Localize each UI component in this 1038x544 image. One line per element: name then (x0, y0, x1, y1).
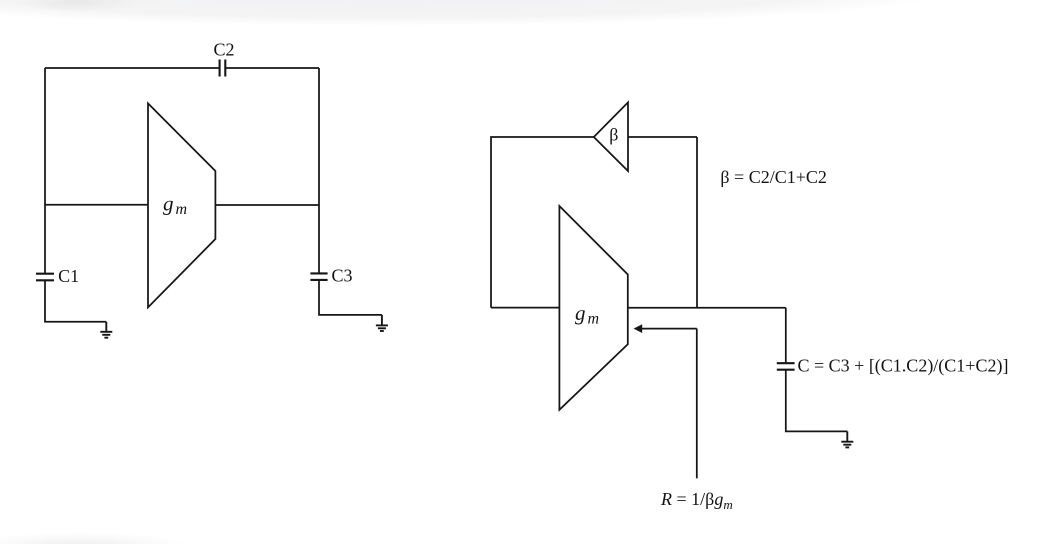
svg-text:C3: C3 (332, 266, 353, 286)
wire: arrow horizontal into gm output (641, 328, 697, 330)
svg-text:R = 1/βgm: R = 1/βgm (660, 489, 733, 512)
wire: right circuit output horizontal (628, 307, 786, 309)
wire: R branch vertical (696, 329, 698, 479)
capacitor C3 (310, 273, 327, 280)
wire: capacitor C branch vertical upper (785, 308, 787, 363)
ground (left circuit, right) (376, 315, 388, 331)
op-amp gm (right circuit, trapezoid) (559, 206, 627, 410)
wire: right circuit bottom segment of loop (491, 307, 559, 309)
wire: capacitor C branch vertical lower + horizontal to ground (786, 370, 848, 432)
amplifier beta (triangle) (594, 102, 628, 171)
wire: left circuit output (middle right) (215, 204, 319, 206)
capacitor C1 (36, 274, 54, 281)
ground (left circuit, left) (100, 322, 112, 338)
svg-text:C2: C2 (214, 39, 235, 59)
wire: left circuit left vertical upper (44, 68, 46, 274)
wire: right circuit left vertical + top segment to beta (491, 137, 594, 308)
wire: left circuit top-left segment (45, 67, 220, 69)
svg-text:β = C2/C1+C2: β = C2/C1+C2 (720, 167, 826, 187)
capacitor C2 (220, 60, 226, 77)
svg-text:β: β (609, 124, 618, 144)
ground (right circuit) (841, 431, 853, 447)
arrowhead of R pointer (634, 324, 643, 333)
wire: left circuit top-right segment (225, 67, 319, 69)
wire: left circuit right vertical lower + bottom-right horizontal (319, 280, 382, 315)
wire: right circuit top segment from beta to right vertical (628, 136, 697, 138)
svg-text:C1: C1 (58, 266, 79, 286)
svg-text:C = C3 + [(C1.C2)/(C1+C2)]: C = C3 + [(C1.C2)/(C1+C2)] (798, 356, 1009, 377)
capacitor C (777, 363, 795, 370)
wire: left circuit left vertical lower + bottom-left horizontal (45, 280, 106, 322)
wire: left circuit input (middle left) (45, 204, 148, 206)
wire: left circuit right vertical upper (318, 68, 320, 273)
op-amp gm (left circuit, trapezoid) (148, 103, 215, 307)
wire: right circuit right vertical of loop (696, 137, 698, 308)
